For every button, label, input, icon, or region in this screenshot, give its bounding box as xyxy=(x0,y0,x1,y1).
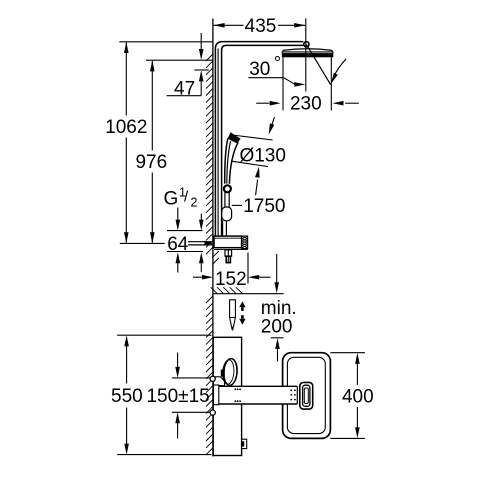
knob pedestal xyxy=(214,377,224,386)
shelf bottom line xyxy=(214,249,248,251)
head shower dome xyxy=(283,49,332,51)
hand shower ring nut xyxy=(224,185,231,192)
svg-text:G: G xyxy=(164,189,179,210)
svg-text:30: 30 xyxy=(249,59,270,80)
extension line 550 top xyxy=(117,334,211,336)
water connection upper xyxy=(210,376,215,381)
extension line 150 bottom xyxy=(172,411,212,413)
extension line 47 bottom xyxy=(194,69,208,71)
support arm xyxy=(214,386,298,404)
svg-text:64: 64 xyxy=(167,234,189,255)
extension line 152 right xyxy=(247,253,249,284)
hose lower section xyxy=(222,221,224,236)
dimension D130 bottom arrow xyxy=(256,180,258,196)
dimension 152 xyxy=(193,276,202,278)
shelf end cap xyxy=(242,236,248,249)
shelf body xyxy=(214,236,242,248)
pencil icon xyxy=(230,300,236,330)
extension line min200 bottom xyxy=(271,337,284,339)
svg-text:400: 400 xyxy=(342,387,374,408)
supply stub xyxy=(188,241,214,243)
svg-text:550: 550 xyxy=(111,386,143,407)
hose upper section xyxy=(224,192,226,207)
head extension lines xyxy=(282,57,284,110)
dimension 64 bottom extension line xyxy=(167,251,203,253)
dimension 400 xyxy=(355,353,360,364)
leader 30 degrees xyxy=(248,77,283,79)
wall ticks below shelf xyxy=(212,251,219,258)
dimension 64 arrows right xyxy=(200,214,202,220)
svg-text:152: 152 xyxy=(215,269,247,290)
support arm hidden dots right xyxy=(290,389,292,391)
shower column and arm outer edge xyxy=(215,42,303,237)
shower column and arm inner edge xyxy=(222,45,304,236)
wall hatching lower xyxy=(206,296,213,303)
dimension 1750 xyxy=(232,204,242,206)
hand shower handle xyxy=(225,138,228,183)
knob dark tab xyxy=(221,370,225,377)
ball joint xyxy=(304,42,309,47)
dimension 150 down arrow xyxy=(177,353,179,368)
svg-text:230: 230 xyxy=(290,94,322,115)
extension line 150 top xyxy=(172,377,212,379)
dimension D130 top arrow xyxy=(272,117,275,126)
tray clamp xyxy=(300,382,313,409)
svg-text:976: 976 xyxy=(135,152,167,173)
svg-text:47: 47 xyxy=(174,79,195,100)
dimension 230 xyxy=(256,102,269,104)
water connection lower xyxy=(210,410,215,415)
svg-text:2: 2 xyxy=(191,196,198,210)
hatching above lower top line xyxy=(211,287,217,293)
hose outlet nozzle xyxy=(225,250,232,256)
extension line 400 top xyxy=(330,352,365,354)
dimension 64 arrows left xyxy=(177,208,179,220)
head tilt line xyxy=(306,44,330,84)
extension line 400 bottom xyxy=(330,437,365,439)
dimension 150 up arrow xyxy=(175,412,180,423)
lower detail top line xyxy=(213,293,284,295)
dimension 976 xyxy=(151,61,153,151)
shower column middle line xyxy=(217,49,219,237)
head shower side edges xyxy=(282,50,283,53)
svg-text:1062: 1062 xyxy=(105,117,147,138)
tilt arc leader xyxy=(334,59,346,76)
extension line top of column xyxy=(119,41,213,43)
dimension 47 upper arrow xyxy=(200,33,202,49)
support arm wall bracket xyxy=(214,385,219,405)
dimension min200 up arrow xyxy=(275,338,280,349)
extension line 550 bottom xyxy=(117,454,211,456)
dimension D130 tangent lines xyxy=(232,135,272,140)
head shower rim top line xyxy=(282,51,333,53)
dimension min200 down arrow xyxy=(276,254,278,282)
wall line xyxy=(212,19,214,457)
svg-text:°: ° xyxy=(274,53,281,73)
inlet center extension line xyxy=(120,242,165,244)
wall hatching upper xyxy=(206,54,213,61)
head shower rim band xyxy=(282,53,333,57)
knob ellipse xyxy=(223,358,238,386)
dimension 47 lower arrow and leader xyxy=(199,70,204,81)
dimension 435 xyxy=(214,24,244,26)
hand shower head cap xyxy=(228,132,241,143)
tray outer xyxy=(283,353,331,439)
svg-text:200: 200 xyxy=(261,316,293,337)
svg-text:1750: 1750 xyxy=(243,196,285,217)
hose connector bulge xyxy=(222,207,232,221)
tray inner xyxy=(287,357,325,433)
svg-text:150±15: 150±15 xyxy=(146,386,209,407)
dimension 1062 xyxy=(125,43,127,116)
dimension 64 top extension line xyxy=(167,230,203,232)
bold vertical arrows xyxy=(239,301,245,307)
extension line arm underside xyxy=(146,59,213,61)
mixer body xyxy=(213,337,241,455)
head center line xyxy=(305,18,307,91)
dimension 550 xyxy=(124,335,129,346)
support arm hidden dots left xyxy=(234,388,236,390)
mixer outlet xyxy=(242,439,247,448)
svg-text:Ø130: Ø130 xyxy=(239,146,285,167)
svg-text:435: 435 xyxy=(245,16,277,37)
